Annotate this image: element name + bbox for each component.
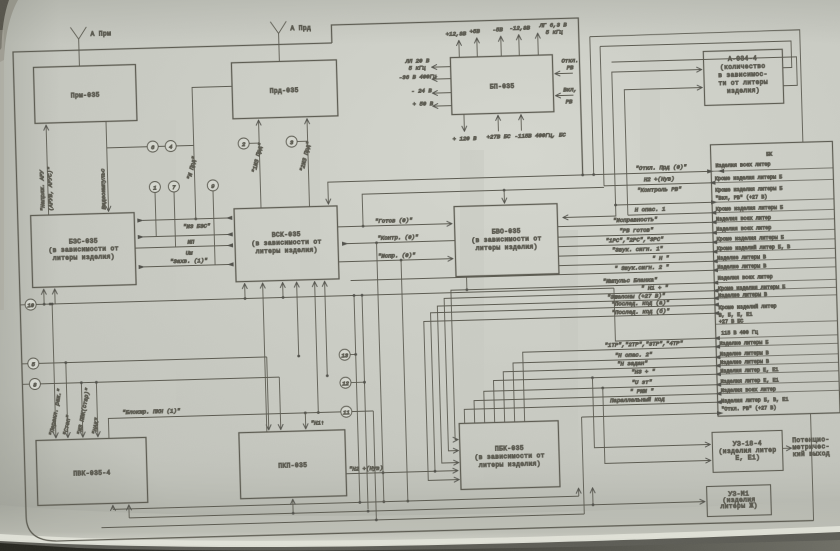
wire Ispr(0) VSK to BVO: [338, 251, 460, 505]
BP-035 right pin Otkl RV: [554, 57, 579, 74]
potentiometric output label: [782, 436, 830, 458]
wrap wire corner2 into A-034-4 right (upper): [600, 41, 792, 73]
page bottom highlight edge: [0, 526, 840, 551]
PKP bottom feed: [292, 499, 294, 513]
node circle 2: [238, 138, 259, 150]
wire circle5 line to PKP: [39, 357, 269, 436]
wrap wire corner3 into A-034-4 right (lower): [612, 57, 798, 91]
block VSK-035: [234, 206, 339, 282]
wire V590 down to row 191: [590, 37, 594, 175]
wire Napryazh ARU: BZS top to Prm bottom: [37, 125, 55, 215]
row 242 Ispravnost from BVO: [557, 214, 716, 229]
risers VSK bottom from lines: [245, 281, 331, 432]
dark top-left page corner: [0, 0, 18, 62]
row 358 115V 400Hz from circle10 line: [614, 285, 720, 343]
node circle 9: [207, 180, 220, 265]
wire 1IZ Prd: VSK top to Prd bottom: [249, 120, 266, 208]
BP-035 top pin +12.8V: [446, 30, 468, 58]
block PKP-035: [239, 430, 347, 499]
junction Posled(a) on N2 wire: [434, 470, 437, 473]
node circle 12: [340, 377, 365, 389]
node circle 1: [149, 181, 162, 236]
node circle 10 with left tick: [20, 299, 36, 310]
left page edge shade: [0, 30, 4, 310]
wire Zakhv line: [138, 256, 233, 269]
row 385.5 N zadan: [503, 358, 722, 423]
wire circle8 line to PKP: [40, 377, 280, 436]
row 232.5 line N opas 1: [628, 204, 717, 217]
row 290 Zvuk sign 2: [350, 262, 718, 282]
block Prd-035: [231, 60, 338, 119]
risers into BZS bottom: [43, 289, 45, 304]
node circle 6: [147, 141, 158, 152]
row 318 Eshelony: [437, 291, 723, 463]
BP-035 left pin -36V 400Hz: [399, 73, 451, 81]
BP-035 top pin +5V: [470, 28, 482, 57]
block UZ-18-4: [712, 430, 783, 472]
riser from Gotov line to line 204: [362, 187, 605, 226]
BP-035 bottom pin +120V out: [452, 114, 477, 143]
row 222 line Vkl RV output: [616, 200, 718, 207]
line 422 Parallelny kod: [464, 394, 722, 423]
row 202.5 line Kontrol RV: [604, 181, 716, 195]
top step wire to V579: [331, 18, 582, 182]
wire IP line: [138, 232, 233, 247]
row 271.5 Zvuk sign 1 from BVO: [558, 244, 717, 259]
wire Gotov(0) VSK to BVO: [337, 216, 452, 229]
branch from V611 into BVO right: [563, 205, 616, 217]
row 404.5 Uzt: [484, 377, 723, 423]
row 394 NZ+: [493, 366, 722, 422]
wire circle10 line to V607: [36, 287, 614, 306]
right edge below table: [811, 414, 814, 521]
BP-035 left pin -24V: [411, 87, 451, 95]
wires NZ+/Uzt to UZ-18-4: [592, 374, 710, 447]
bottom table output wire Otkl RV: [581, 411, 726, 514]
wire N2+(Nuv) PKP to PBK: [346, 463, 458, 474]
BP-035 top pin -12.8V: [509, 24, 531, 56]
wire A-034-4 left input 2 from V623: [624, 88, 706, 216]
row 310.5 N1+: [444, 283, 723, 451]
wire into BVO top: [503, 189, 506, 203]
row 191 line Otkl Prd: [362, 162, 725, 191]
BP-035 top pin LG 6.3V 5kHz: [537, 21, 568, 55]
block Prm-035: [33, 65, 137, 124]
wire A-034-4 left input 1 from V611: [612, 70, 706, 205]
block UZ-M1: [707, 485, 772, 517]
top-right wire corner1 to right edge: [590, 30, 803, 148]
wire I Prd vertical into Prd left: [183, 86, 236, 220]
wire V600 down to row 202.5: [600, 46, 604, 185]
antenna A Prd: [270, 21, 312, 62]
BP-035 top pin -5V: [492, 26, 504, 56]
node circle 11: [341, 405, 374, 417]
row 302.5 Impuls Blanka: [451, 275, 723, 440]
row 252.5 RV gotov from BVO: [558, 225, 717, 240]
row 191 left end turns down into VSK top: [328, 181, 363, 204]
node circle 4: [165, 140, 176, 151]
node circle 3: [286, 136, 308, 148]
BP-035 right pin Vkl RV: [555, 86, 577, 106]
row 281 N from BVO: [559, 253, 718, 268]
bottom bus 1: [113, 488, 579, 511]
node circle 7: [168, 181, 181, 247]
wire Videoimpuls: Prm bottom to BZS top: [98, 121, 109, 211]
PVK top feed wires: [44, 301, 101, 438]
BVO bottom stub: [466, 276, 468, 289]
row 262 1RS 2RS 3RS from BVO: [558, 234, 717, 249]
block A-034-4: [703, 49, 783, 105]
faint showthrough stripes: [150, 40, 660, 510]
block BVO-035: [454, 204, 559, 277]
block PBK-035: [459, 421, 560, 490]
block PVK-035-4: [36, 437, 148, 505]
BP-035 left pin LL 20V 5kHz: [404, 57, 450, 72]
BP-035 bottom pin -115V 400Hz BS in: [514, 113, 566, 139]
line 333 Posled kod (b): [424, 306, 724, 480]
bottom bus 2: [129, 486, 673, 520]
row 377 N opas 2: [513, 349, 722, 422]
bottom curl shading: [0, 430, 840, 551]
center bundle verticals: [351, 243, 386, 521]
row 366.5 1TR..4TR: [522, 339, 722, 422]
wire 2IZ Prd: VSK top to Prd bottom: [297, 119, 314, 207]
wire Um line: [135, 243, 233, 258]
antenna A Prm: [70, 26, 112, 66]
wire Blokir PKN(1): [108, 403, 341, 439]
bottom bus 3: [101, 513, 584, 529]
BP-035 left pin +50V: [413, 100, 452, 108]
table row separators: [711, 168, 839, 394]
wire Kontr(0) BVO to VSK: [342, 233, 455, 246]
node circle 5 with left tick: [22, 358, 39, 369]
BK table: [710, 141, 840, 416]
UZ-M1 input wire from bus2: [673, 501, 705, 504]
dark table below page edge: [0, 532, 840, 551]
node circle 13: [339, 349, 356, 360]
block BZS-035: [31, 213, 136, 288]
line 324.5 Posled kod (a): [430, 298, 723, 472]
wire horizontal with circles 6,4: [107, 145, 194, 147]
block BP-035: [450, 55, 554, 115]
wire IZ BZS line: [137, 216, 232, 232]
node circle 8 with left tick: [22, 378, 40, 390]
table cell texts: [715, 174, 795, 412]
row 413.5 RII: [474, 386, 722, 423]
BP-035 bottom pin +27V BS in: [486, 115, 511, 141]
